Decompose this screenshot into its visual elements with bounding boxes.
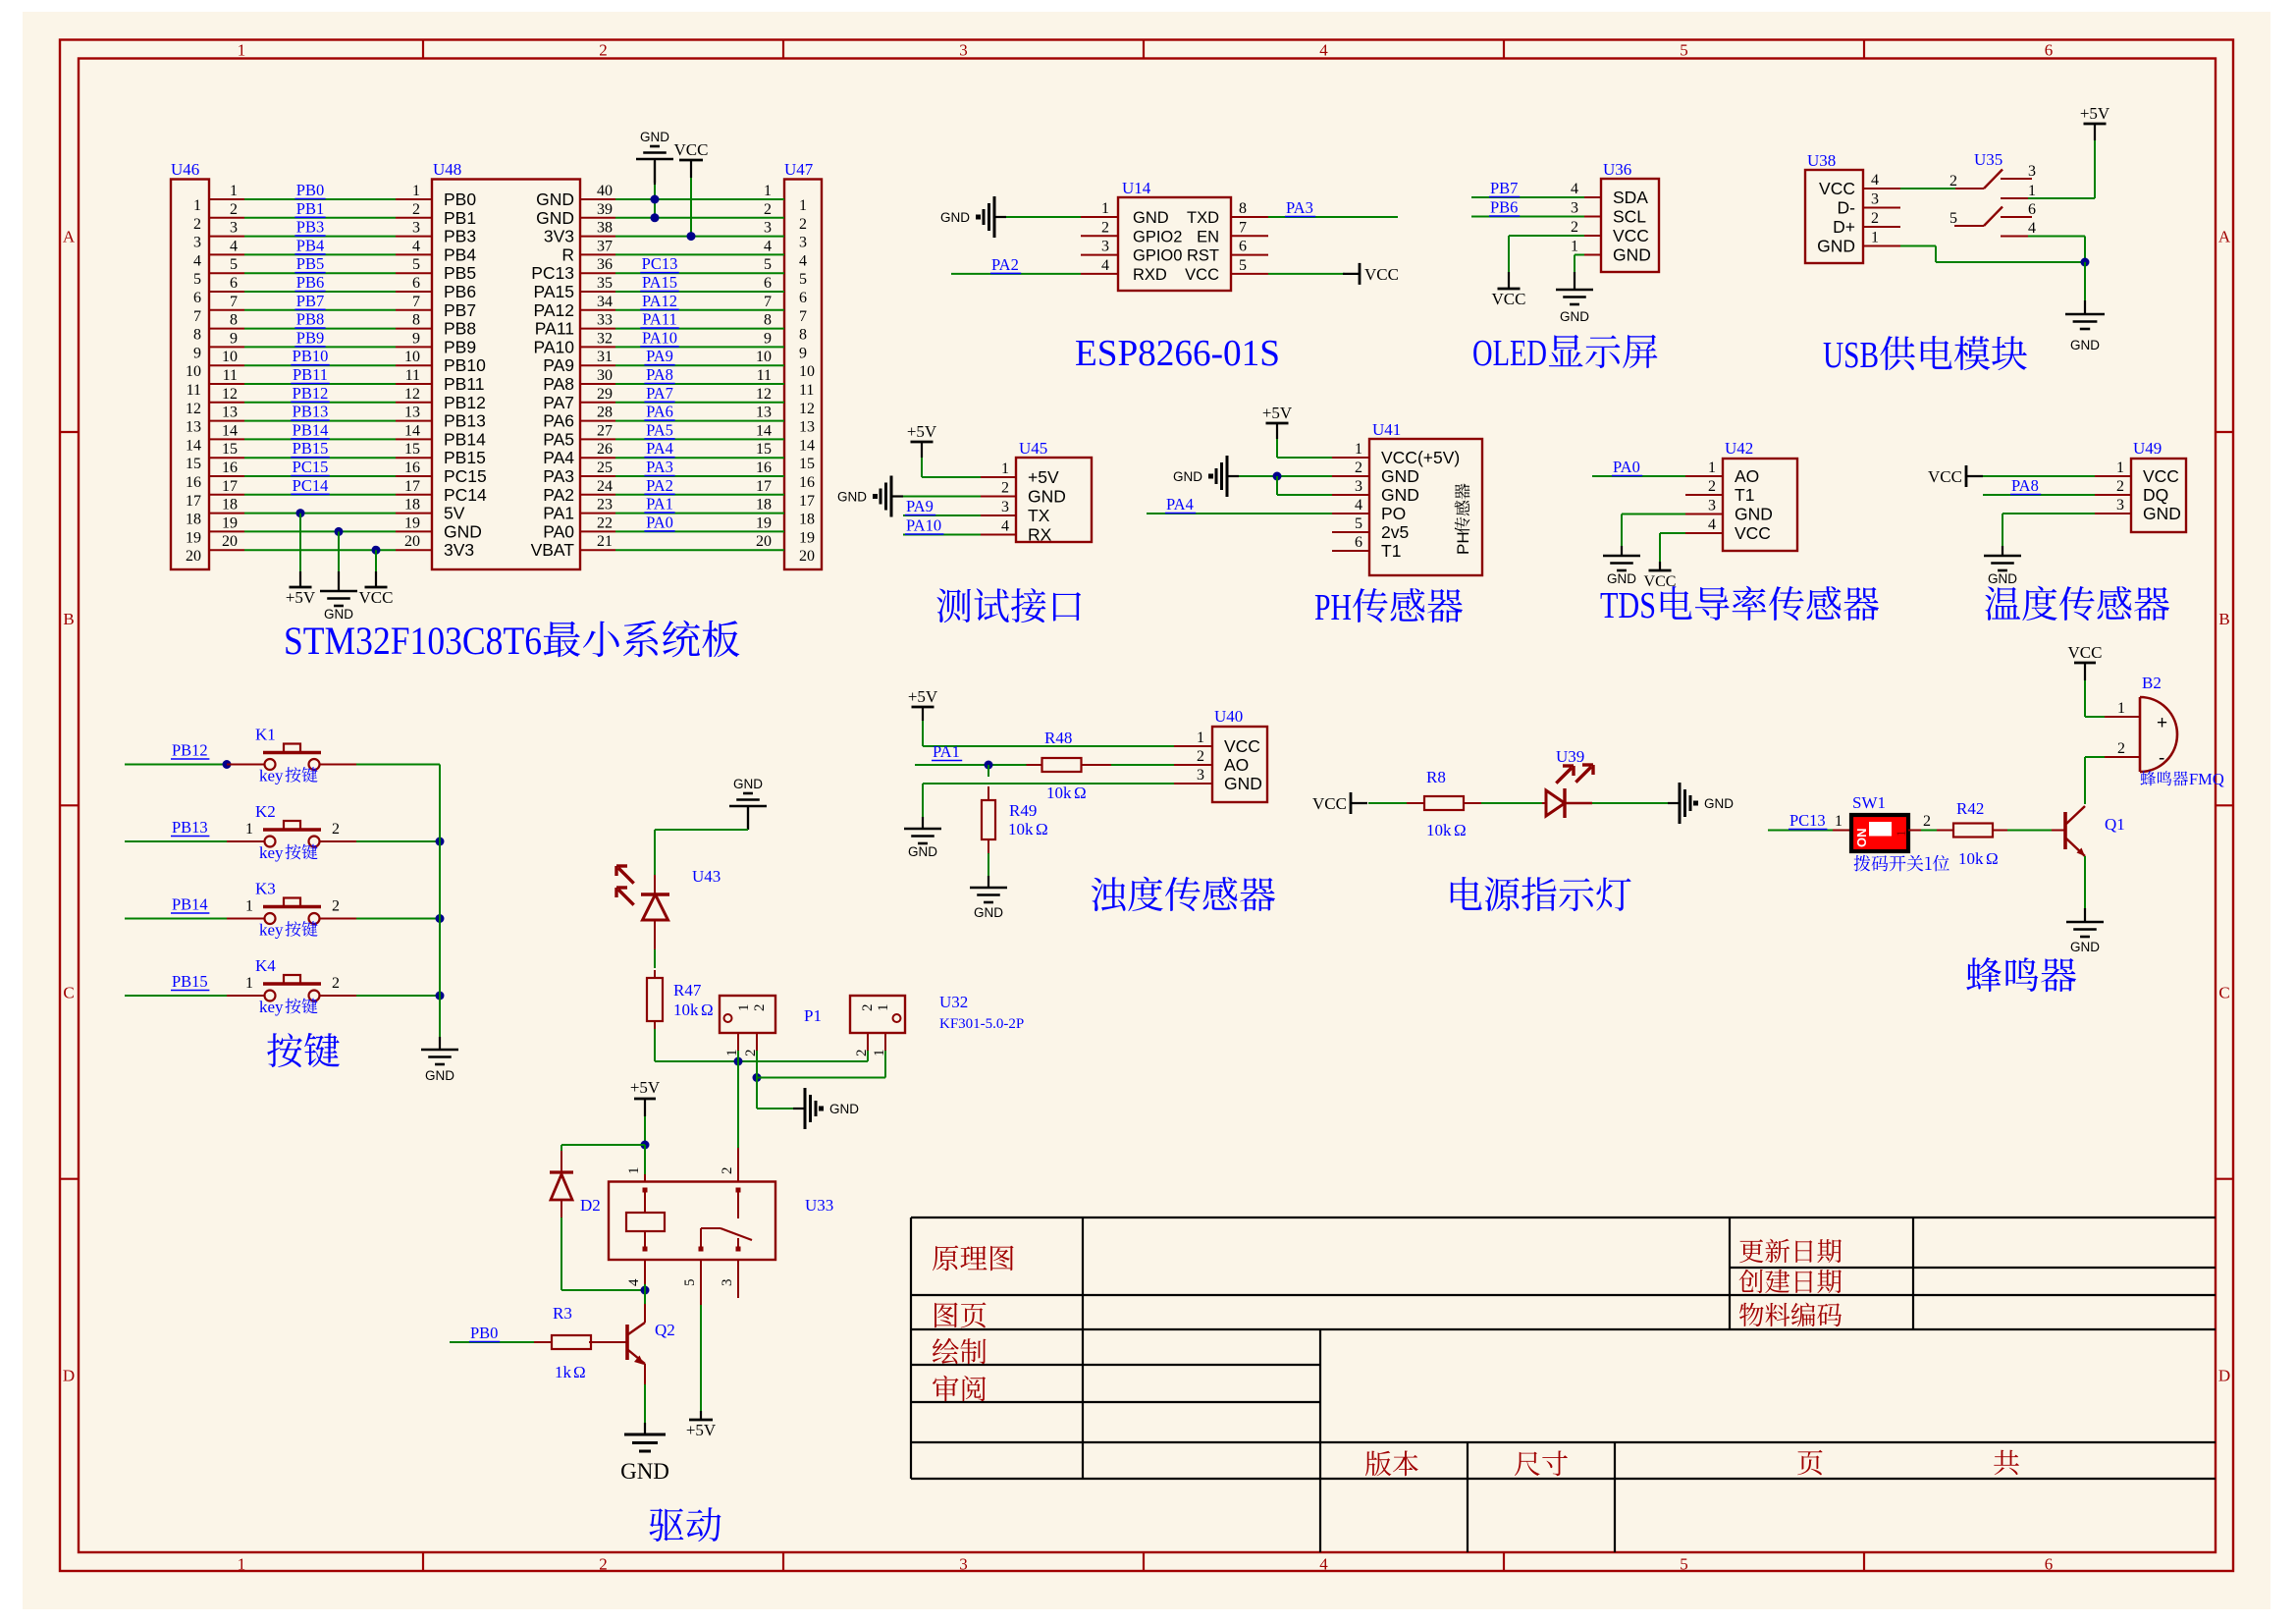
wire PA10 to U45 RX	[903, 534, 981, 536]
wire U38 VCC to switch	[1900, 188, 1955, 189]
wire U48 pin 37 to U47 pin 4	[580, 253, 615, 255]
wire U48 pin 23 to U47 pin 18	[580, 513, 615, 514]
wire PA8 to U49 DQ	[1983, 494, 2095, 496]
svg-text:5: 5	[412, 256, 420, 273]
svg-text:23: 23	[597, 497, 613, 514]
svg-text:36: 36	[597, 256, 613, 273]
svg-text:2: 2	[332, 975, 340, 992]
svg-text:B: B	[63, 610, 74, 628]
svg-text:RST: RST	[1187, 247, 1219, 265]
pin 2 stub U14 left	[1081, 235, 1118, 237]
pin 4 stub U38	[1863, 188, 1900, 189]
svg-text:1: 1	[245, 898, 253, 915]
pin 5 stub U14 right	[1231, 273, 1268, 275]
pin 1 stub U41	[1332, 457, 1369, 459]
svg-text:+5V: +5V	[686, 1421, 717, 1439]
wire +5V to U41 pin1	[1276, 439, 1278, 458]
wire U46 pin 1 to U48	[209, 198, 244, 200]
svg-text:6: 6	[2045, 1555, 2054, 1574]
pin 1 stub U42	[1685, 475, 1723, 477]
svg-text:Ω: Ω	[701, 1001, 714, 1019]
svg-text:U49: U49	[2133, 439, 2162, 458]
wire U40 GND down	[923, 783, 1174, 784]
svg-text:PC13: PC13	[1789, 811, 1826, 830]
svg-text:PB13: PB13	[293, 403, 329, 421]
svg-text:14: 14	[756, 422, 772, 439]
LED U43	[654, 875, 656, 894]
svg-text:14: 14	[222, 422, 238, 439]
svg-text:33: 33	[597, 312, 613, 329]
svg-text:2: 2	[1923, 813, 1931, 830]
wire Q2 emitter to GND	[644, 1364, 646, 1384]
pin 1 stub U36	[1584, 254, 1601, 256]
relay pin 4	[644, 1260, 646, 1284]
svg-text:5: 5	[1239, 257, 1247, 274]
svg-text:20: 20	[756, 533, 772, 550]
svg-text:+: +	[2157, 713, 2167, 733]
svg-text:1: 1	[1835, 813, 1842, 830]
wire PA0 to U42 AO	[1592, 475, 1685, 477]
svg-text:OLED: OLED	[1472, 333, 1547, 374]
svg-text:10k: 10k	[673, 1001, 699, 1019]
svg-text:PB13: PB13	[172, 818, 208, 837]
wire U42 VCC down	[1660, 532, 1685, 534]
svg-text:VCC: VCC	[359, 588, 394, 607]
svg-text:GPIO0: GPIO0	[1133, 247, 1182, 265]
svg-text:GND: GND	[1381, 466, 1419, 486]
svg-text:GND: GND	[1817, 237, 1855, 256]
svg-text:Q2: Q2	[655, 1321, 675, 1339]
pin 2 stub U45	[981, 496, 1016, 498]
svg-text:PB14: PB14	[293, 420, 329, 439]
svg-text:GND: GND	[1224, 774, 1262, 793]
title block table	[911, 1217, 2216, 1218]
transistor Q2	[589, 1341, 626, 1343]
svg-text:PB9: PB9	[296, 328, 324, 347]
svg-text:11: 11	[757, 367, 772, 384]
svg-text:10k: 10k	[1426, 821, 1452, 839]
svg-text:4: 4	[1355, 497, 1362, 514]
svg-text:PB15: PB15	[293, 439, 329, 458]
svg-text:1: 1	[245, 821, 253, 838]
wire U48 pin 36 to U47 pin 5	[580, 272, 615, 274]
svg-text:1: 1	[724, 1050, 740, 1057]
svg-text:2v5: 2v5	[1381, 522, 1409, 542]
svg-text:PB13: PB13	[444, 411, 486, 431]
svg-text:PA2: PA2	[991, 255, 1019, 274]
wire U48 pin 21 to U47 pin 20	[580, 549, 615, 551]
svg-text:6: 6	[764, 275, 772, 292]
wire U46 pin 7 to U48	[209, 309, 244, 311]
svg-text:K3: K3	[255, 880, 276, 898]
junction VCC row3	[687, 232, 696, 241]
svg-text:17: 17	[756, 478, 772, 495]
wire U48 pin 34 to U47 pin 7	[580, 309, 615, 311]
svg-text:GND: GND	[829, 1102, 859, 1116]
svg-text:4: 4	[2028, 220, 2036, 237]
svg-text:U32: U32	[939, 993, 968, 1011]
svg-text:U42: U42	[1725, 439, 1753, 458]
svg-text:D2: D2	[580, 1196, 601, 1215]
ground GND (below U40)	[922, 817, 924, 829]
pin 3 stub U42	[1685, 514, 1723, 515]
svg-text:RXD: RXD	[1133, 266, 1167, 284]
svg-text:16: 16	[799, 474, 815, 491]
pin 2 stub U41	[1332, 475, 1369, 477]
svg-text:5: 5	[1355, 515, 1362, 532]
pin 1 stub U38	[1863, 245, 1900, 247]
svg-text:1k: 1k	[555, 1363, 572, 1381]
svg-text:20: 20	[799, 548, 815, 565]
wire PB0 to R3	[450, 1341, 535, 1343]
svg-text:PB1: PB1	[296, 199, 324, 218]
svg-text:1: 1	[764, 183, 772, 199]
svg-text:STM32F103C8T6: STM32F103C8T6	[284, 619, 542, 663]
svg-text:GND: GND	[2143, 504, 2181, 523]
label turbidity sensor	[1092, 877, 1275, 912]
wire VCC to U49 pin1	[1983, 475, 2095, 477]
svg-text:PA9: PA9	[906, 497, 934, 515]
svg-text:PA7: PA7	[543, 393, 574, 412]
svg-text:GND: GND	[1560, 309, 1589, 324]
wire D2 to collector node	[561, 1217, 562, 1290]
svg-text:17: 17	[186, 493, 201, 510]
title block labels	[933, 1245, 1014, 1271]
svg-text:7: 7	[193, 308, 201, 325]
svg-text:ESP8266-01S: ESP8266-01S	[1075, 333, 1280, 374]
ground GND (top of U48 right wires)	[654, 159, 656, 183]
power +5V (top right)	[2094, 124, 2096, 140]
svg-text:15: 15	[404, 441, 420, 458]
relay fixed contact	[736, 1188, 741, 1193]
svg-text:U39: U39	[1556, 747, 1584, 766]
wire PB13	[125, 840, 227, 842]
svg-text:C: C	[2218, 984, 2229, 1002]
svg-text:PA11: PA11	[535, 319, 574, 339]
wire node to GND	[756, 1078, 758, 1109]
wire U46 pin 12 to U48	[209, 402, 244, 404]
svg-text:4: 4	[1101, 257, 1109, 274]
svg-text:B2: B2	[2142, 674, 2162, 692]
svg-text:PA0: PA0	[1613, 458, 1640, 476]
svg-text:GND: GND	[1613, 245, 1651, 265]
svg-text:18: 18	[186, 512, 201, 528]
power VCC (left of R8)	[1350, 792, 1353, 814]
svg-text:PB3: PB3	[444, 227, 476, 246]
svg-text:12: 12	[799, 401, 815, 417]
svg-text:5: 5	[1680, 41, 1688, 60]
svg-text:2: 2	[2116, 478, 2124, 495]
wire U48 pin 30 to U47 pin 11	[580, 383, 615, 385]
svg-text:PA15: PA15	[642, 273, 677, 292]
svg-text:PB10: PB10	[444, 355, 486, 375]
ground GND (keys)	[439, 1037, 441, 1050]
svg-text:PA12: PA12	[642, 292, 677, 310]
power +5V (relay)	[634, 1098, 656, 1101]
wire U46 pin 2 to U48	[209, 217, 244, 219]
wire PA2 to U14 pin4	[951, 273, 1081, 275]
wire R48 to U40 AO	[1081, 764, 1111, 766]
svg-text:7: 7	[412, 294, 420, 310]
svg-text:4: 4	[1708, 516, 1716, 533]
svg-text:8: 8	[1239, 200, 1247, 217]
wire LED to GND	[1592, 802, 1668, 804]
wire U48 pin 26 to U47 pin 15	[580, 457, 615, 459]
svg-text:PA9: PA9	[543, 355, 574, 375]
wire junction to ground	[2084, 262, 2086, 300]
svg-text:PB7: PB7	[296, 292, 324, 310]
wire U46 pin 10 to U48	[209, 364, 244, 366]
wire R47 down to node	[654, 1029, 656, 1061]
svg-text:PA5: PA5	[543, 429, 574, 449]
svg-text:PA2: PA2	[646, 476, 673, 495]
svg-text:3: 3	[2028, 163, 2036, 180]
svg-text:28: 28	[597, 405, 613, 421]
svg-text:9: 9	[764, 330, 772, 347]
pin 2 stub U32	[867, 1033, 869, 1051]
svg-text:PA3: PA3	[646, 458, 673, 476]
svg-text:40: 40	[597, 183, 613, 199]
LED U39	[1542, 802, 1546, 804]
wire U43 to R47	[654, 949, 656, 968]
wire U48 pin 25 to U47 pin 16	[580, 475, 615, 477]
svg-text:8: 8	[764, 312, 772, 329]
pin 3 stub U14 left	[1081, 254, 1118, 256]
svg-text:11: 11	[187, 382, 201, 399]
svg-text:11: 11	[223, 367, 238, 384]
svg-text:PB6: PB6	[296, 273, 324, 292]
svg-text:PA3: PA3	[1286, 198, 1313, 217]
pin 3 stub U41	[1332, 494, 1369, 496]
power +5V (above U45)	[921, 442, 923, 458]
svg-text:GND: GND	[1381, 485, 1419, 505]
svg-text:P1: P1	[804, 1006, 822, 1025]
svg-text:PA6: PA6	[543, 411, 574, 431]
svg-text:GND: GND	[908, 844, 937, 859]
svg-text:2: 2	[720, 1167, 735, 1175]
ground GND (left of U41)	[1227, 475, 1239, 477]
svg-text:PA0: PA0	[543, 521, 574, 541]
svg-text:KF301-5.0-2P: KF301-5.0-2P	[939, 1016, 1024, 1032]
svg-text:3: 3	[1101, 239, 1109, 255]
svg-text:31: 31	[597, 349, 613, 365]
svg-text:PC15: PC15	[293, 458, 329, 476]
svg-text:PB15: PB15	[444, 448, 486, 467]
svg-text:2: 2	[412, 201, 420, 218]
svg-text:R49: R49	[1009, 801, 1037, 820]
pin 2 stub P1	[756, 1033, 758, 1051]
vertical text PH sensor inside U41	[1454, 531, 1472, 555]
svg-text:GND: GND	[974, 905, 1003, 920]
power +5V (below pin5)	[700, 1411, 702, 1420]
wire PA9 to U45 TX	[903, 514, 981, 516]
svg-text:2: 2	[1101, 219, 1109, 236]
ground GND (right of U39)	[1668, 802, 1680, 804]
svg-text:18: 18	[404, 497, 420, 514]
svg-text:5: 5	[682, 1279, 698, 1287]
svg-text:4: 4	[764, 238, 772, 254]
pin 1 stub U32	[884, 1033, 886, 1051]
svg-text:21: 21	[597, 533, 613, 550]
svg-text:TDS: TDS	[1600, 585, 1656, 626]
svg-text:GND: GND	[1735, 505, 1773, 524]
svg-text:5V: 5V	[444, 504, 465, 523]
connector P1	[720, 996, 775, 1033]
svg-text:14: 14	[186, 437, 201, 454]
svg-text:VCC: VCC	[1928, 467, 1962, 486]
svg-text:PB5: PB5	[444, 263, 476, 283]
svg-text:1: 1	[736, 1004, 752, 1012]
svg-text:GND: GND	[536, 208, 574, 228]
svg-text:PB3: PB3	[296, 218, 324, 237]
pin 6 stub U35	[2001, 216, 2032, 218]
svg-text:22: 22	[597, 514, 613, 531]
svg-text:9: 9	[799, 345, 807, 361]
svg-text:4: 4	[626, 1278, 642, 1286]
svg-text:15: 15	[799, 456, 815, 472]
pin 1 stub U14 left	[1081, 216, 1118, 218]
svg-text:15: 15	[756, 441, 772, 458]
wire U46 pin 4 to U48	[209, 253, 244, 255]
label power indicator	[1451, 877, 1631, 911]
svg-text:2: 2	[2117, 740, 2125, 757]
svg-text:24: 24	[597, 478, 613, 495]
svg-text:2: 2	[230, 201, 238, 218]
svg-text:PC15: PC15	[444, 466, 487, 486]
svg-text:2: 2	[1355, 460, 1362, 476]
svg-text:PB15: PB15	[172, 972, 208, 991]
relay arm	[699, 1247, 704, 1252]
wire GND to LED U43	[747, 806, 749, 830]
ground GND (below U35)	[2084, 300, 2086, 314]
svg-text:12: 12	[186, 401, 201, 417]
power +5V (above U40)	[922, 707, 924, 721]
junction bus K3	[436, 914, 445, 923]
svg-text:R8: R8	[1426, 768, 1446, 786]
wire K3 to bus	[356, 918, 440, 920]
wire Q1 emitter to GND	[2084, 856, 2086, 908]
wire GND to rows 1-2	[654, 185, 656, 218]
wire collector to node	[644, 1290, 646, 1304]
module U38 USB power	[1805, 170, 1863, 263]
svg-text:A: A	[2218, 227, 2231, 245]
button contacts K2	[265, 837, 276, 847]
pin 3 stub U45	[981, 514, 1016, 516]
svg-text:5: 5	[1949, 210, 1957, 227]
connector U32	[850, 996, 905, 1033]
wire U48 pin 39 to U47 pin 2	[580, 217, 615, 219]
svg-text:2: 2	[860, 1004, 876, 1012]
svg-text:PB14: PB14	[444, 429, 486, 449]
svg-text:26: 26	[597, 441, 613, 458]
resistor R48	[1027, 764, 1042, 766]
wire U46 pin 13 to U48	[209, 420, 244, 422]
label buzzer FMQ	[2141, 771, 2189, 785]
svg-text:12: 12	[222, 386, 238, 403]
svg-text:PB11: PB11	[293, 365, 328, 384]
svg-text:16: 16	[756, 460, 772, 476]
svg-text:R: R	[561, 244, 574, 264]
svg-text:Ω: Ω	[573, 1363, 586, 1381]
label test interface	[936, 588, 1081, 622]
ground GND (left of U45)	[891, 495, 903, 497]
svg-text:1: 1	[2117, 700, 2125, 717]
svg-text:PB12: PB12	[293, 384, 329, 403]
svg-text:3: 3	[412, 220, 420, 237]
pin 3 stub U49	[2095, 513, 2131, 514]
svg-text:VCC: VCC	[1224, 736, 1260, 756]
resistor R49	[988, 765, 989, 777]
svg-text:3V3: 3V3	[544, 227, 574, 246]
svg-text:GND: GND	[444, 521, 482, 541]
svg-text:A: A	[63, 227, 76, 245]
svg-text:16: 16	[222, 460, 238, 476]
svg-text:2: 2	[743, 1050, 759, 1057]
svg-text:10k: 10k	[1008, 820, 1034, 839]
svg-text:PB5: PB5	[296, 254, 324, 273]
svg-text:GND: GND	[2070, 338, 2100, 352]
wire +5V to U40 VCC	[922, 721, 924, 746]
svg-text:10: 10	[404, 349, 420, 365]
svg-text:6: 6	[799, 290, 807, 306]
svg-text:U48: U48	[433, 160, 461, 179]
junction node GND row19	[335, 527, 344, 536]
junction node VCC row20	[372, 546, 381, 555]
svg-text:DQ: DQ	[2143, 485, 2168, 505]
wire +5V to U45 pin1	[921, 458, 923, 477]
wire +5V to relay node	[644, 1116, 646, 1145]
wire U48 pin 40 to U47 pin 1	[580, 198, 615, 200]
label DIP switch 1bit	[1854, 855, 1949, 872]
svg-text:PA5: PA5	[646, 420, 673, 439]
svg-text:PA8: PA8	[2011, 476, 2039, 495]
svg-text:1: 1	[230, 183, 238, 199]
svg-text:19: 19	[756, 514, 772, 531]
svg-text:6: 6	[193, 290, 201, 306]
svg-text:VCC(+5V): VCC(+5V)	[1381, 448, 1460, 467]
svg-text:7: 7	[799, 308, 807, 325]
module U41 PH sensor	[1369, 439, 1482, 575]
svg-text:20: 20	[186, 548, 201, 565]
svg-text:3: 3	[1355, 478, 1362, 495]
wire K2 to bus	[356, 840, 440, 842]
svg-text:13: 13	[756, 405, 772, 421]
svg-text:1: 1	[238, 41, 246, 60]
svg-text:PH: PH	[1454, 531, 1472, 555]
svg-text:PA11: PA11	[642, 310, 676, 329]
wire GND to U45 pin2	[903, 496, 981, 498]
svg-text:+5V: +5V	[1028, 467, 1059, 487]
svg-text:K2: K2	[255, 802, 276, 821]
pin 6 stub U14 right	[1231, 254, 1268, 256]
svg-text:PB11: PB11	[444, 374, 485, 394]
svg-text:3: 3	[1001, 499, 1009, 515]
svg-text:15: 15	[186, 456, 201, 472]
wire U35 pin4 to GND node	[2028, 236, 2085, 238]
wire SW1 to R42	[1908, 830, 1921, 832]
svg-text:3: 3	[230, 220, 238, 237]
label temperature sensor	[1985, 586, 2169, 622]
svg-text:SCL: SCL	[1613, 207, 1646, 227]
svg-text:9: 9	[230, 330, 238, 347]
svg-text:U14: U14	[1122, 179, 1151, 197]
svg-text:4: 4	[1319, 41, 1328, 60]
svg-text:D-: D-	[1838, 198, 1856, 218]
wire PC13 to SW1	[1768, 830, 1833, 832]
ground GND (below Q1)	[2084, 908, 2086, 922]
junction GND node	[2081, 258, 2090, 267]
svg-text:+5V: +5V	[908, 687, 938, 706]
